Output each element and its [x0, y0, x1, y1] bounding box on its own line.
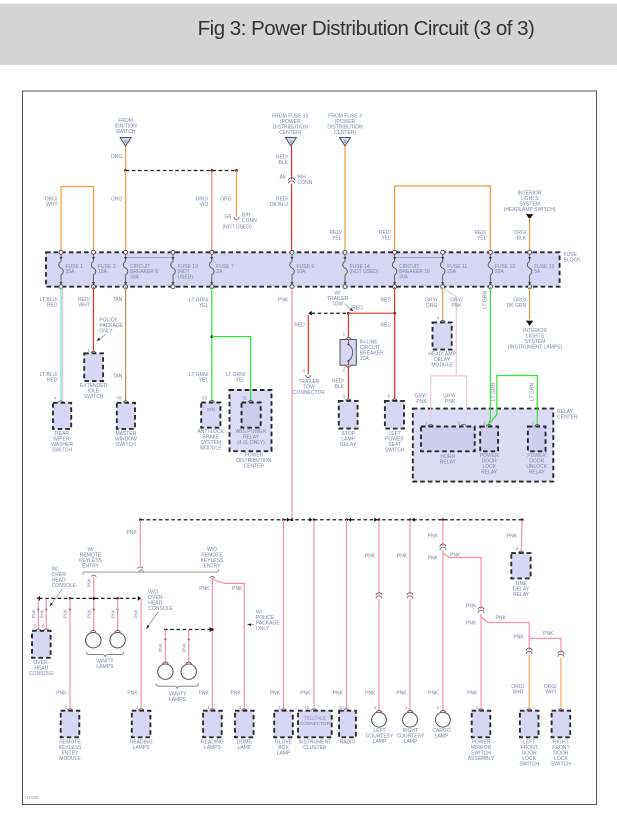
fuse F19 5A: [528, 250, 532, 254]
svg-text:(NOT USED): (NOT USED): [222, 224, 251, 230]
svg-text:CENTER: CENTER: [244, 463, 265, 469]
pink distribution bus: [140, 519, 522, 521]
svg-text:A6: A6: [280, 174, 286, 180]
connector G6 B/H (not used): [234, 217, 239, 220]
fuse F9 10A: [290, 250, 294, 254]
svg-text:DK GRN: DK GRN: [507, 303, 527, 309]
svg-text:25A: 25A: [447, 269, 457, 275]
wire PNK bus drop left: [139, 520, 141, 566]
svg-text:SWITCH: SWITCH: [52, 447, 72, 453]
svg-text:ORG: ORG: [220, 197, 232, 203]
dashed option line overhead console: [39, 597, 139, 599]
svg-text:PNK: PNK: [543, 631, 554, 637]
wire PNK right courtesy drop: [409, 520, 411, 595]
svg-text:CENTER): CENTER): [334, 130, 357, 136]
wire PNK vanity lamp 2b: [188, 630, 190, 663]
title bar: [0, 4, 617, 66]
svg-text:PNK: PNK: [134, 609, 139, 618]
svg-text:ASSEMBLY: ASSEMBLY: [468, 756, 495, 762]
svg-text:LT GRN: LT GRN: [530, 383, 536, 401]
fuse F13 20A: [488, 250, 492, 254]
wire LT GRN/YEL branch to abs power relay: [212, 337, 251, 401]
svg-text:ONLY: ONLY: [99, 328, 113, 334]
relay center box: [413, 409, 554, 482]
fuse block: [46, 252, 560, 286]
wire PNK vanity lamp 1b: [117, 598, 119, 630]
wire PNK cargo lamp drop: [442, 520, 444, 547]
wire PNK to time delay relay: [521, 520, 522, 552]
wire LT BLU/RED to rear wiper washer switch: [60, 287, 62, 401]
wire ORG to circuit breaker 6: [125, 171, 127, 253]
wire PNK to remote keyless module: [69, 598, 71, 708]
svg-text:PNK: PNK: [56, 690, 67, 696]
svg-text:YEL: YEL: [199, 303, 209, 309]
wire PNK fuse 9 to pink bus: [291, 287, 293, 520]
wire ORG ignition to junction: [125, 146, 127, 170]
wire ORG/WHT left door lock: [528, 655, 530, 708]
wire GRY/ORG to headlamp delay module: [442, 287, 444, 321]
svg-text:TELLTALE: TELLTALE: [304, 716, 326, 721]
fuse F7 2A: [210, 250, 214, 254]
svg-text:30A: 30A: [399, 275, 409, 281]
wire PNK reading lamps 1: [140, 598, 142, 708]
wire ORG/WHT loop fuse1-fuse3: [61, 187, 94, 253]
option split line keyless entry: [83, 569, 219, 574]
svg-text:DK BLU: DK BLU: [270, 202, 288, 208]
svg-text:MODULE: MODULE: [431, 362, 453, 368]
node ignition dashed junction: [124, 169, 127, 172]
wire RED/YEL loop cb16-fuse13: [395, 186, 491, 252]
svg-text:10: 10: [305, 705, 310, 710]
svg-text:SWITCH: SWITCH: [519, 762, 539, 768]
svg-text:MODULE: MODULE: [200, 445, 222, 451]
wire LT GRN/YEL from fuse 7: [211, 287, 213, 401]
vanity lamp 2b: [186, 662, 191, 664]
wire LT GRN fuse13 to door lock relay: [489, 287, 491, 425]
svg-text:Fig 3: Power Distribution Circ: Fig 3: Power Distribution Circuit (3 of …: [198, 17, 535, 40]
wire PNK keyless branch to vanity lamp: [93, 577, 95, 631]
wire GRY/PNK fuse11 to horn relay: [431, 288, 457, 424]
wire PNK vanity lamp 2a: [164, 630, 166, 663]
vanity lamp 2a: [163, 662, 168, 664]
fuse F14 not used: [343, 250, 347, 254]
wire ORG/VIO to fuse 7: [211, 171, 213, 253]
svg-text:CONSOLE: CONSOLE: [52, 583, 77, 589]
wire LT GRN loop to unlock relay: [490, 376, 537, 425]
svg-text:BLK: BLK: [279, 160, 289, 166]
in-line circuit breaker 10A: [346, 338, 351, 340]
svg-text:RED: RED: [381, 298, 392, 304]
svg-text:LAMP: LAMP: [373, 739, 387, 745]
svg-text:RED: RED: [352, 306, 363, 312]
svg-text:BLOCK: BLOCK: [564, 257, 582, 263]
svg-text:RELAY: RELAY: [340, 442, 357, 448]
svg-text:30A: 30A: [130, 275, 140, 281]
fuse F11 25A: [441, 250, 445, 254]
wire TAN to master window switch: [125, 287, 127, 401]
wire ORG/DK GRN to instrument lamps: [529, 287, 531, 320]
svg-text:CONN: CONN: [298, 180, 313, 186]
svg-text:PNK: PNK: [87, 578, 92, 587]
vanity lamp 1a: [91, 631, 96, 633]
svg-text:10A: 10A: [297, 269, 307, 275]
svg-text:PNK: PNK: [63, 609, 68, 618]
svg-text:YEL: YEL: [477, 236, 487, 242]
svg-text:RED: RED: [294, 322, 305, 328]
svg-text:ENTRY: ENTRY: [204, 564, 222, 570]
svg-text:PNK: PNK: [445, 399, 456, 405]
svg-text:LAMP: LAMP: [404, 739, 418, 745]
power distribution center box: [230, 390, 272, 451]
svg-text:CONNECTOR: CONNECTOR: [293, 390, 326, 396]
wire PNK radio drop: [346, 520, 348, 708]
svg-text:TOW: TOW: [332, 301, 344, 307]
svg-text:PNK: PNK: [416, 399, 427, 405]
svg-text:PNK: PNK: [428, 690, 439, 696]
svg-text:WHT: WHT: [545, 689, 556, 695]
svg-text:20A: 20A: [495, 269, 505, 275]
svg-text:RED: RED: [47, 302, 58, 308]
svg-text:WHT: WHT: [79, 302, 90, 308]
svg-text:71538: 71538: [26, 795, 39, 800]
svg-text:31: 31: [242, 395, 247, 400]
svg-text:PNK: PNK: [466, 604, 477, 610]
svg-text:PNK: PNK: [365, 690, 376, 696]
connector break left door: [526, 648, 532, 651]
svg-text:PNK: PNK: [467, 690, 478, 696]
svg-text:5A: 5A: [534, 269, 541, 275]
svg-text:YEL: YEL: [381, 236, 391, 242]
fuse F3 10A: [92, 250, 96, 254]
svg-text:ORG: ORG: [426, 303, 438, 309]
svg-text:CONSOLE: CONSOLE: [148, 606, 173, 612]
svg-text:IGN: IGN: [207, 407, 215, 412]
svg-text:PNK: PNK: [86, 609, 91, 618]
svg-text:YEL: YEL: [199, 378, 209, 384]
internal link cb16 to fuse11: [395, 258, 443, 263]
wire RED/BLK from fuse 16: [291, 146, 293, 179]
svg-text:PNK: PNK: [158, 643, 163, 652]
wire RED to in-line circuit breaker: [347, 313, 349, 337]
wire PNK branch to power mirror switch: [443, 553, 481, 609]
svg-text:PNK: PNK: [300, 690, 311, 696]
svg-text:RELAY: RELAY: [529, 469, 546, 475]
svg-text:SWITCH: SWITCH: [551, 762, 571, 768]
svg-text:SWITCH: SWITCH: [385, 447, 405, 453]
svg-text:LAMP: LAMP: [435, 734, 449, 740]
vanity lamps label 2: [156, 683, 199, 688]
svg-text:RED: RED: [381, 322, 392, 328]
svg-text:PNK: PNK: [466, 620, 477, 626]
svg-text:MODULE: MODULE: [59, 756, 81, 762]
wire PNK left courtesy drop: [378, 520, 380, 595]
connector A6 B/H conn: [289, 178, 295, 181]
svg-text:ONLY: ONLY: [256, 626, 270, 632]
wire PNK glove box lamp drop: [283, 520, 285, 708]
wire PNK branch to door lock switches: [481, 617, 529, 651]
svg-text:BLK: BLK: [334, 384, 344, 390]
wire RED from circuit breaker 16: [394, 287, 396, 399]
node trailer tow junction: [347, 312, 350, 315]
svg-text:53: 53: [202, 395, 207, 400]
svg-text:SWITCH: SWITCH: [84, 394, 104, 400]
svg-text:PNK: PNK: [428, 534, 439, 540]
svg-text:LAMP: LAMP: [277, 751, 291, 757]
svg-text:LT GRN: LT GRN: [483, 291, 489, 309]
vanity lamp 1b: [115, 631, 120, 633]
svg-text:PNK: PNK: [365, 554, 376, 560]
svg-text:CONSOLE: CONSOLE: [29, 671, 54, 677]
tap w/ remote keyless: [91, 575, 96, 576]
svg-text:TAN: TAN: [113, 297, 123, 303]
connector break right door: [558, 651, 564, 654]
svg-text:CLUSTER: CLUSTER: [303, 745, 327, 751]
wire ORG stub to unused connector G6: [236, 171, 238, 217]
wire RED/DK BLU to fuse 9: [291, 184, 293, 253]
svg-text:RED: RED: [47, 377, 58, 383]
tap w/o remote keyless: [210, 577, 215, 578]
svg-text:LAMPS: LAMPS: [96, 664, 114, 670]
svg-text:PNK: PNK: [127, 530, 138, 536]
dashed option line top: [126, 170, 237, 172]
svg-text:PNK: PNK: [451, 303, 462, 309]
wire RED/WHT to extended idle switch: [93, 287, 95, 352]
svg-text:YEL: YEL: [236, 378, 246, 384]
svg-text:PNK: PNK: [127, 690, 138, 696]
svg-text:2A: 2A: [216, 269, 223, 275]
svg-text:PNK: PNK: [428, 556, 439, 562]
vanity lamps label 1: [87, 652, 124, 657]
svg-text:TAN: TAN: [113, 374, 123, 380]
svg-text:PNK: PNK: [231, 690, 242, 696]
svg-text:LAMPS: LAMPS: [133, 745, 151, 751]
wire ORG/WHT right door lock: [560, 658, 562, 708]
svg-text:SWITCH: SWITCH: [116, 442, 136, 448]
svg-text:USED): USED): [178, 275, 194, 281]
svg-text:CENTER): CENTER): [279, 130, 302, 136]
svg-text:PNK: PNK: [199, 586, 210, 592]
left power seat switch: [394, 313, 396, 399]
svg-text:YEL: YEL: [332, 236, 342, 242]
svg-text:PNK: PNK: [513, 634, 524, 640]
svg-text:PNK: PNK: [182, 643, 187, 652]
wire PNK instrument cluster drop: [313, 520, 315, 708]
svg-text:G6: G6: [225, 214, 232, 220]
svg-text:ORG: ORG: [111, 197, 123, 203]
svg-text:25A: 25A: [66, 269, 76, 275]
svg-text:(HEADLAMP SWITCH): (HEADLAMP SWITCH): [504, 207, 556, 213]
svg-text:BLK: BLK: [517, 236, 527, 242]
svg-text:PNK: PNK: [450, 552, 461, 558]
svg-text:RELAY: RELAY: [513, 592, 530, 598]
svg-text:LAMPS: LAMPS: [204, 745, 222, 751]
svg-text:PNK: PNK: [199, 690, 210, 696]
svg-text:PNK: PNK: [111, 609, 116, 618]
dashed option line vanity lamps: [164, 629, 211, 631]
svg-text:(INSTRUMENT LAMPS): (INSTRUMENT LAMPS): [508, 344, 563, 350]
wire ORG/BLK to fuse 19: [529, 218, 531, 252]
circuit breaker CB16 30A: [393, 250, 397, 254]
node abs branch: [211, 335, 214, 338]
svg-text:RELAY: RELAY: [440, 460, 457, 466]
svg-text:CONNECTOR: CONNECTOR: [300, 721, 331, 726]
svg-text:WHT: WHT: [46, 202, 57, 208]
svg-text:PNK: PNK: [397, 554, 408, 560]
svg-text:VIO: VIO: [200, 202, 209, 208]
svg-text:ORG: ORG: [111, 154, 123, 160]
svg-text:LAMP: LAMP: [237, 745, 251, 751]
wire PNK w/o keyless left branch: [211, 578, 213, 708]
svg-text:(NOT USED): (NOT USED): [350, 269, 379, 275]
svg-text:ENTRY: ENTRY: [82, 564, 100, 570]
svg-text:CENTER: CENTER: [557, 414, 578, 420]
wire RED to trailer tow connector: [307, 315, 309, 374]
svg-text:PNK: PNK: [496, 616, 507, 622]
svg-text:LT GRN: LT GRN: [491, 383, 497, 401]
svg-text:PNK: PNK: [31, 609, 36, 618]
svg-text:RELAY: RELAY: [481, 469, 498, 475]
fuse F10 not used: [171, 250, 175, 254]
svg-text:PNK: PNK: [396, 690, 407, 696]
dashed option trailer tow: [312, 312, 349, 314]
svg-text:PNK: PNK: [333, 690, 344, 696]
wire RED/YEL from fuse 3 to fuse 14: [344, 146, 346, 252]
svg-text:PNK: PNK: [270, 690, 281, 696]
wire RED trailer tow horizontal: [348, 312, 394, 314]
svg-text:LAMPS: LAMPS: [169, 697, 187, 703]
svg-text:10: 10: [339, 705, 344, 710]
svg-text:SWITCH: SWITCH: [116, 129, 136, 135]
fuse F1 25A: [59, 250, 63, 254]
svg-text:10A: 10A: [360, 356, 370, 362]
wire PNK to overhead console pin6: [45, 598, 47, 629]
circuit breaker CB6 30A: [124, 250, 128, 254]
svg-text:Y8: Y8: [116, 395, 122, 400]
svg-text:WHT: WHT: [513, 689, 524, 695]
svg-text:PNK: PNK: [232, 586, 243, 592]
svg-text:PNK: PNK: [39, 609, 44, 618]
wire PNK w/o keyless right branch: [212, 578, 244, 708]
svg-text:PNK: PNK: [278, 298, 289, 304]
wire PNK right door branch: [529, 638, 561, 653]
internal link cb6 to fuse10: [126, 258, 173, 263]
svg-text:10A: 10A: [98, 269, 108, 275]
wire PNK to overhead console pin5: [37, 598, 39, 629]
svg-text:PNK: PNK: [507, 534, 518, 540]
svg-text:CONN: CONN: [242, 218, 257, 224]
svg-text:RADIO: RADIO: [340, 740, 356, 746]
svg-text:(4.0L ONLY): (4.0L ONLY): [237, 440, 265, 446]
